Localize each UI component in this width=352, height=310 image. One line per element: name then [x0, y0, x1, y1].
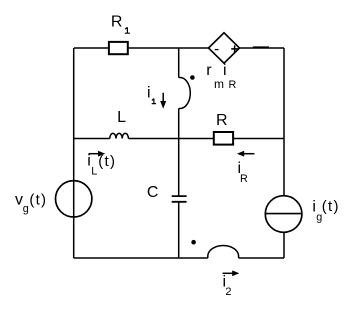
svg-text:i: i: [147, 85, 151, 102]
svg-text:r: r: [206, 62, 212, 79]
svg-text:i: i: [87, 152, 91, 169]
svg-text:R: R: [111, 14, 123, 31]
svg-text:g: g: [23, 203, 29, 215]
svg-text:(t): (t): [29, 191, 47, 208]
svg-text:R: R: [229, 79, 237, 91]
svg-text:L: L: [91, 166, 97, 178]
svg-text:(t): (t): [322, 198, 340, 215]
svg-text:2: 2: [225, 286, 231, 298]
svg-text:g: g: [316, 211, 322, 223]
svg-text:m: m: [214, 77, 224, 91]
svg-text:L: L: [117, 109, 126, 126]
svg-text:C: C: [147, 184, 159, 201]
svg-text:(t): (t): [98, 153, 116, 170]
svg-text:R: R: [240, 173, 248, 185]
svg-text:R: R: [216, 112, 228, 129]
